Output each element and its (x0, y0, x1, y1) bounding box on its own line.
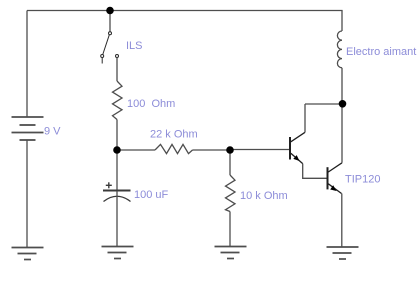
wire coil to node D (341, 68, 343, 104)
wire node B to capacitor (116, 150, 118, 190)
wire battery negative to ground (26, 140, 28, 247)
wire node A to switch (109, 11, 111, 32)
wire Q1 collector to node D (305, 103, 343, 105)
resistor R2 22 k Ohm (155, 144, 193, 153)
wire switch to R1 (116, 58, 118, 81)
wire Q2 emitter to ground (341, 194, 343, 248)
node A junction dot (top rail / switch) (106, 7, 114, 15)
ground (battery) (12, 248, 44, 260)
wire node C to Q1 base (230, 149, 290, 151)
battery BAT1 9V (12, 117, 44, 140)
node C junction dot (226, 146, 234, 154)
wire R1 to node B (116, 120, 118, 151)
ground (R3) (215, 247, 247, 259)
resistor R3 10 k Ohm (226, 175, 236, 212)
wire node B to R2 (117, 149, 155, 151)
svg-text:ILS: ILS (126, 40, 143, 52)
svg-text:100 uF: 100 uF (134, 189, 169, 201)
svg-text:10 k Ohm: 10 k Ohm (240, 190, 288, 202)
wire R3 to ground (229, 212, 231, 248)
wire node D to Q2 collector (341, 104, 343, 163)
transistor Q1 (TIP120 first darlington stage) (290, 132, 305, 163)
transistor Q2 (TIP120 second darlington stage) (328, 163, 343, 194)
node D junction dot (339, 100, 347, 108)
capacitor C1 100 uF polarized (103, 182, 131, 201)
svg-text:22 k Ohm: 22 k Ohm (150, 129, 198, 141)
node B junction dot (113, 146, 121, 154)
switch S1 ILS (reed switch, open) (101, 32, 119, 64)
wire top rail to coil (341, 11, 343, 32)
wire top rail (27, 10, 343, 12)
wire Q1 emitter to Q2 base (303, 164, 327, 179)
svg-text:TIP120: TIP120 (345, 174, 380, 186)
wire Q1 collector up (304, 104, 306, 132)
wire battery positive to top rail (26, 11, 28, 118)
wire capacitor to ground (116, 191, 118, 247)
resistor R1 100 Ohm (113, 81, 123, 120)
wire node C to R3 (229, 150, 231, 175)
ground (capacitor) (102, 247, 134, 259)
inductor L1 electromagnet coil (337, 31, 342, 68)
svg-text:Electro aimant: Electro aimant (346, 46, 416, 58)
svg-text:100 Ohm: 100 Ohm (127, 98, 175, 110)
svg-text:9 V: 9 V (44, 126, 61, 138)
wire R2 to node C (193, 149, 231, 151)
ground (Q2 emitter) (327, 247, 359, 259)
